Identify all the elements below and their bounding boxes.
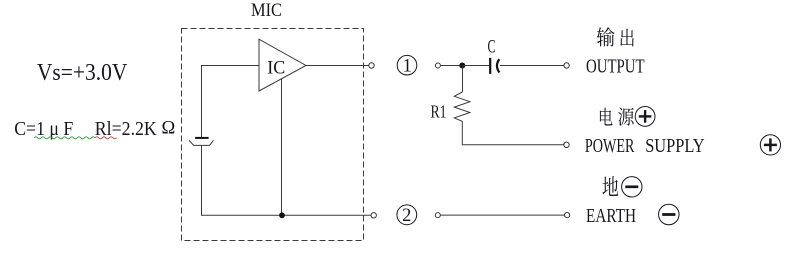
chinese label chu (output) — [620, 29, 634, 47]
EARTH terminal open circle — [565, 213, 570, 218]
chinese label di (earth) — [603, 176, 619, 196]
plus-in-circle symbol after power label — [635, 107, 655, 127]
svg-text:C: C — [488, 37, 496, 58]
microphone capsule element (electret) — [189, 137, 214, 146]
svg-text:1: 1 — [403, 57, 412, 77]
wire: microphone capsule to ground rail — [201, 145, 203, 215]
minus-in-circle symbol after earth label — [622, 177, 642, 197]
wire: resistor to power rail corner — [462, 121, 564, 145]
svg-text:2: 2 — [402, 206, 411, 226]
wire: node A to capacitor C — [462, 65, 489, 67]
resistor R1 zigzag — [454, 92, 470, 121]
svg-text:EARTH: EARTH — [586, 206, 636, 227]
red spellcheck wavy underline — [95, 137, 116, 139]
svg-text:IC: IC — [267, 58, 285, 79]
external node circle (row 3 left) — [435, 213, 440, 218]
terminal pin 2 open circle — [371, 213, 376, 218]
svg-text:POWER: POWER — [585, 136, 635, 157]
wire: capacitor to OUTPUT terminal — [500, 65, 564, 67]
svg-text:SUPPLY: SUPPLY — [645, 136, 704, 157]
junction dot node A — [459, 63, 465, 69]
node marker circled 1 — [397, 55, 417, 76]
OUTPUT terminal open circle — [564, 63, 569, 68]
wire: mic to amplifier input (horizontal) — [201, 65, 259, 67]
svg-text:R1: R1 — [431, 102, 447, 122]
svg-text:Vs=+3.0V: Vs=+3.0V — [37, 59, 128, 86]
minus-in-circle symbol after EARTH — [659, 204, 680, 225]
wire: IC ground pin vertical — [281, 79, 283, 215]
op-amp U1 triangle (IC) — [259, 39, 306, 91]
POWER terminal open circle — [564, 142, 569, 147]
svg-text:OUTPUT: OUTPUT — [586, 56, 645, 77]
wire: node A down to resistor R1 — [462, 66, 464, 93]
wire: vertical down to microphone capsule — [201, 66, 203, 138]
node marker circled 2 — [397, 205, 417, 226]
wire: earth row horizontal — [440, 214, 564, 216]
external node circle (row 1 left) — [435, 63, 440, 68]
capacitor C (polarized plates) — [490, 58, 499, 74]
chinese label shu (output) — [597, 27, 615, 46]
chinese label yuan (power) — [618, 107, 634, 125]
plus-in-circle symbol at right margin — [760, 135, 780, 155]
MIC module dashed enclosure box — [182, 29, 364, 241]
svg-text:MIC: MIC — [251, 0, 282, 21]
wire: ground rail (box bottom horizontal) — [201, 214, 371, 216]
terminal pin 1 open circle — [369, 63, 374, 68]
wire: to junction node A — [440, 65, 462, 67]
chinese label dian (power) — [600, 108, 613, 126]
junction dot on ground rail — [279, 212, 285, 218]
wire: IC output to pin 1 — [306, 65, 369, 67]
green spellcheck wavy underline — [34, 137, 95, 139]
svg-text:Ω: Ω — [162, 119, 176, 139]
